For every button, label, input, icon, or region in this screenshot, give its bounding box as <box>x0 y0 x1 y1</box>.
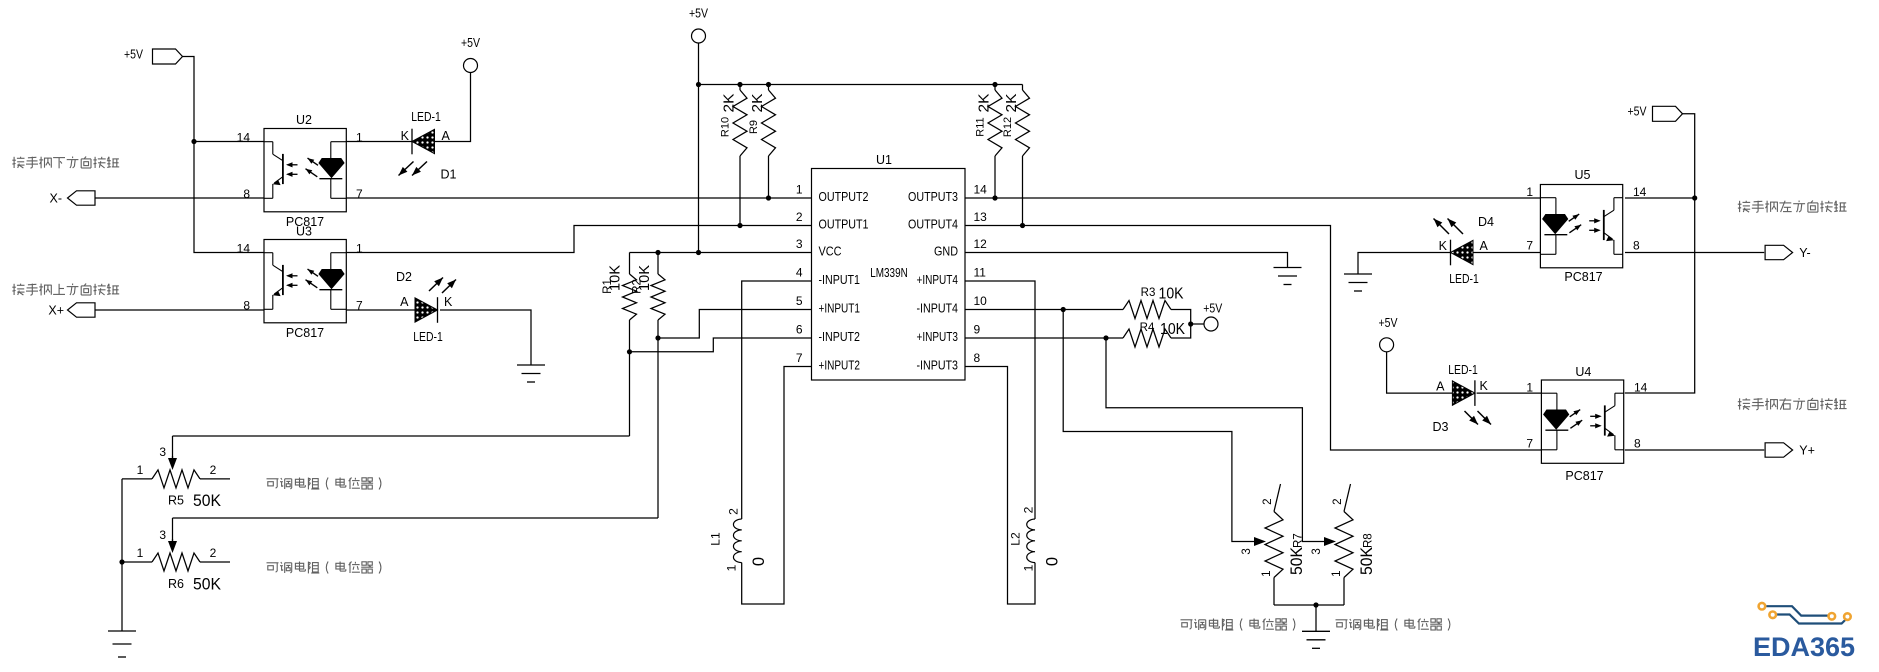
wire to ground (R7/R8) <box>1315 605 1317 631</box>
svg-text:K: K <box>1480 379 1489 393</box>
svg-text:2: 2 <box>796 210 803 224</box>
svg-text:3: 3 <box>1241 548 1253 554</box>
svg-text:8: 8 <box>1634 437 1641 451</box>
D1 light arrows <box>399 162 414 176</box>
junction +INPUT3 branch <box>1103 335 1108 340</box>
svg-text:-INPUT1: -INPUT1 <box>819 272 861 287</box>
svg-text:R11: R11 <box>974 117 986 136</box>
svg-text:+5V: +5V <box>1628 105 1648 119</box>
svg-text:R12: R12 <box>1002 117 1014 137</box>
junction R11/OUTPUT3 <box>992 195 997 200</box>
port Y- <box>1765 245 1793 259</box>
wire U1 pin 2 OUTPUT1 to U3 pin 1 <box>346 226 811 253</box>
wire X- to U2 pin 8 <box>95 197 264 199</box>
LED D1 <box>412 129 435 153</box>
svg-text:1: 1 <box>137 546 144 560</box>
svg-text:2: 2 <box>210 546 217 560</box>
svg-text:A: A <box>1480 239 1489 253</box>
resistor R11 2K <box>994 85 996 91</box>
label 可调电阻（电位器） R7 <box>1181 619 1295 631</box>
svg-text:A: A <box>400 295 409 309</box>
svg-text:1: 1 <box>137 463 144 477</box>
LED D4 <box>1451 240 1474 264</box>
wire U3 pin 7 to LED D2 <box>346 309 415 311</box>
ground (R7/R8) <box>1302 630 1330 632</box>
svg-text:R10: R10 <box>719 117 731 137</box>
junction VCC/R2 <box>655 250 660 255</box>
LED D3 <box>1452 381 1475 405</box>
inductor L1 <box>733 519 741 563</box>
junction rail R10 <box>737 82 742 87</box>
ground (R5/R6) <box>108 630 136 632</box>
wire +5V to LED D3 <box>1387 352 1453 393</box>
junction VCC/+5V <box>696 250 701 255</box>
power +5V circle (R3/R4) <box>1204 317 1218 331</box>
D2 light arrows <box>429 278 443 292</box>
svg-text:1: 1 <box>1022 564 1036 571</box>
svg-text:+5V: +5V <box>124 48 144 62</box>
junction R12/OUTPUT4 <box>1020 223 1025 228</box>
svg-text:GND: GND <box>934 244 958 259</box>
svg-text:2K: 2K <box>1003 94 1020 113</box>
potentiometer R6 50K <box>122 561 152 563</box>
wire U5 pin 14 <box>1625 197 1695 199</box>
junction rail R9 <box>766 82 771 87</box>
svg-text:0: 0 <box>1044 557 1062 566</box>
wire U1 pin 10 -INPUT4 to R3 <box>965 309 1123 311</box>
wire U2 pin 1 to LED D1 <box>346 141 413 143</box>
svg-text:PC817: PC817 <box>286 326 324 340</box>
svg-text:2: 2 <box>1022 506 1036 513</box>
wire D4 cathode to ground <box>1358 253 1451 275</box>
ground (U1 GND) <box>1274 267 1302 269</box>
svg-text:+INPUT4: +INPUT4 <box>917 272 959 287</box>
svg-text:OUTPUT3: OUTPUT3 <box>908 189 958 204</box>
junction -INPUT4 branch <box>1061 307 1066 312</box>
port X- <box>68 191 96 205</box>
svg-text:1: 1 <box>1331 570 1343 576</box>
svg-text:LED-1: LED-1 <box>1449 272 1479 286</box>
svg-text:6: 6 <box>796 323 803 337</box>
svg-text:7: 7 <box>356 187 363 201</box>
svg-text:U2: U2 <box>296 113 312 127</box>
svg-text:1: 1 <box>796 183 803 197</box>
ground (D2) <box>517 364 545 366</box>
potentiometer R8 50K <box>1344 484 1351 512</box>
svg-text:5: 5 <box>796 294 803 308</box>
svg-text:OUTPUT1: OUTPUT1 <box>819 217 869 232</box>
wire U2 pin 7 to U1 pin 1 (OUTPUT2) <box>346 197 811 199</box>
svg-text:R4: R4 <box>1140 322 1155 334</box>
svg-text:D1: D1 <box>441 168 457 182</box>
EDA365 logo <box>1753 603 1855 662</box>
svg-text:1: 1 <box>725 564 739 571</box>
wire R1 to R5 wiper <box>173 435 630 437</box>
resistor R12 2K <box>1022 85 1024 91</box>
svg-text:2: 2 <box>727 508 741 515</box>
wire D2 cathode to ground <box>440 310 531 365</box>
LED D2 <box>415 298 438 322</box>
resistor R9 2K <box>768 85 770 91</box>
power +5V circle (D3) <box>1380 338 1394 352</box>
port Y+ <box>1765 443 1793 457</box>
svg-text:3: 3 <box>159 445 166 459</box>
svg-text:2: 2 <box>1332 498 1344 504</box>
power flag +5V left <box>153 49 183 64</box>
wire GND pin 12 to ground <box>965 253 1288 268</box>
D4 light arrows <box>1434 219 1450 235</box>
svg-text:R1: R1 <box>602 279 614 294</box>
svg-text:D3: D3 <box>1433 420 1449 434</box>
junction R5/R6 pin1 <box>119 559 124 564</box>
svg-text:R6: R6 <box>168 577 184 591</box>
wire D3 cathode to U4 pin 1 <box>1477 392 1542 394</box>
svg-text:K: K <box>401 129 410 143</box>
svg-text:7: 7 <box>1526 437 1533 451</box>
junction R3/R4/+5V <box>1188 321 1193 326</box>
svg-text:OUTPUT2: OUTPUT2 <box>819 189 869 204</box>
wire +5V to VCC rail <box>698 43 700 253</box>
label 可调电阻（电位器） R5 <box>267 478 381 490</box>
svg-text:8: 8 <box>243 299 250 313</box>
wire U1 pin 11 +INPUT4 to L2 <box>965 281 1035 519</box>
svg-text:12: 12 <box>974 237 988 251</box>
junction +5V/U2.14 <box>191 139 196 144</box>
wire U1 pin 4 -INPUT1 to L1 <box>742 281 812 519</box>
svg-text:10K: 10K <box>1160 321 1185 338</box>
wire U5 pin 7 to LED D4 <box>1473 252 1540 254</box>
svg-text:3: 3 <box>1311 548 1323 554</box>
wire U1 pin 13 OUTPUT4 to U4 pin 7 <box>965 226 1541 451</box>
svg-text:9: 9 <box>974 323 981 337</box>
port X+ <box>68 303 96 317</box>
svg-text:+5V: +5V <box>1379 316 1399 330</box>
resistor R1 10K <box>629 253 631 275</box>
svg-text:-INPUT3: -INPUT3 <box>917 358 959 373</box>
label 接手柄上方向按钮 <box>12 284 119 296</box>
wire U2 pin 14 <box>194 141 264 143</box>
junction R9/OUTPUT2 <box>766 195 771 200</box>
svg-text:4: 4 <box>796 266 803 280</box>
wire U1 pin 9 +INPUT3 to R4 <box>965 337 1123 339</box>
svg-text:0: 0 <box>750 557 768 566</box>
svg-text:14: 14 <box>1634 381 1648 395</box>
power flag +5V right <box>1653 106 1683 121</box>
wire R7/R8 bottoms <box>1274 604 1344 606</box>
svg-text:+5V: +5V <box>689 7 709 21</box>
svg-text:1: 1 <box>356 131 363 145</box>
svg-text:PC817: PC817 <box>1565 469 1603 483</box>
junction +5V/U5.14 <box>1692 195 1697 200</box>
svg-text:8: 8 <box>243 187 250 201</box>
svg-text:U4: U4 <box>1575 365 1591 379</box>
wire R2 to R6 wiper <box>173 517 659 519</box>
svg-text:LED-1: LED-1 <box>413 330 443 344</box>
svg-text:14: 14 <box>1633 185 1647 199</box>
svg-text:14: 14 <box>974 183 988 197</box>
svg-text:1: 1 <box>1261 570 1273 576</box>
wire +5V flag to U2/U3 pin 14 <box>183 57 265 253</box>
svg-text:14: 14 <box>237 242 251 256</box>
svg-text:10K: 10K <box>1159 286 1184 303</box>
svg-text:U5: U5 <box>1575 168 1591 182</box>
potentiometer R5 50K <box>122 478 152 480</box>
resistor R3 10K <box>1123 301 1171 319</box>
optocoupler U4 <box>1541 380 1623 463</box>
ground (D4) <box>1344 273 1372 275</box>
svg-text:50K: 50K <box>1358 547 1376 575</box>
svg-text:50K: 50K <box>193 492 221 510</box>
svg-text:R9: R9 <box>748 120 760 134</box>
svg-text:7: 7 <box>1526 239 1533 253</box>
svg-text:R7: R7 <box>1293 533 1305 548</box>
power +5V circle top <box>692 29 706 43</box>
junction R7/R8 ground <box>1313 602 1318 607</box>
svg-text:D2: D2 <box>396 270 412 284</box>
svg-text:1: 1 <box>1526 185 1533 199</box>
svg-text:X+: X+ <box>48 304 64 318</box>
svg-text:L2: L2 <box>1009 532 1023 546</box>
svg-text:OUTPUT4: OUTPUT4 <box>908 217 958 232</box>
svg-text:2: 2 <box>1262 498 1274 504</box>
junction +5V rail <box>696 82 701 87</box>
svg-text:U3: U3 <box>296 225 312 239</box>
wire -INPUT4 branch to R7 wiper <box>1063 310 1256 542</box>
svg-text:8: 8 <box>1633 239 1640 253</box>
svg-text:R2: R2 <box>632 279 644 294</box>
svg-text:K: K <box>444 295 453 309</box>
svg-text:50K: 50K <box>1288 547 1306 575</box>
inductor L2 <box>1027 519 1035 563</box>
svg-text:7: 7 <box>796 351 803 365</box>
svg-text:R3: R3 <box>1141 287 1156 299</box>
svg-text:L1: L1 <box>709 532 723 546</box>
svg-text:13: 13 <box>974 210 988 224</box>
svg-text:X-: X- <box>50 192 63 206</box>
svg-text:LM339N: LM339N <box>870 265 908 280</box>
wire U1 pin 6 -INPUT2 to R1 <box>630 338 812 352</box>
svg-text:LED-1: LED-1 <box>411 110 441 124</box>
wire +INPUT3 branch to R8 wiper <box>1106 338 1326 542</box>
svg-text:LED-1: LED-1 <box>1448 363 1478 377</box>
resistor R10 2K <box>739 85 741 91</box>
svg-text:+INPUT3: +INPUT3 <box>917 329 959 344</box>
svg-text:1: 1 <box>1526 381 1533 395</box>
junction R2/+INPUT1 <box>655 335 660 340</box>
label 接手柄右方向按钮 <box>1738 398 1847 410</box>
svg-text:A: A <box>1436 380 1445 394</box>
label 接手柄下方向按钮 <box>12 157 119 169</box>
wire U5 pin 8 to Y- <box>1625 252 1764 254</box>
junction rail R11 <box>992 82 997 87</box>
svg-text:PC817: PC817 <box>1564 270 1602 284</box>
wire VCC segment <box>630 252 812 254</box>
svg-text:Y-: Y- <box>1799 246 1810 260</box>
svg-text:-INPUT2: -INPUT2 <box>819 329 861 344</box>
comparator U1 LM339N <box>812 169 966 381</box>
svg-text:R8: R8 <box>1363 533 1375 548</box>
wire R5/R6 pin1 to ground <box>121 479 123 631</box>
svg-text:1: 1 <box>356 242 363 256</box>
label 可调电阻（电位器） R6 <box>267 562 381 574</box>
optocoupler U5 <box>1540 185 1622 268</box>
svg-text:D4: D4 <box>1478 215 1494 229</box>
svg-text:2K: 2K <box>976 94 993 113</box>
svg-text:3: 3 <box>159 528 166 542</box>
wire R3 to +5V <box>1171 310 1204 325</box>
svg-text:VCC: VCC <box>819 244 842 259</box>
svg-text:R5: R5 <box>168 494 184 508</box>
svg-text:10: 10 <box>974 294 988 308</box>
resistor R2 10K <box>657 253 659 275</box>
wire R4 to +5V <box>1171 324 1191 338</box>
svg-text:+5V: +5V <box>461 36 481 50</box>
resistor R4 10K <box>1123 329 1171 347</box>
svg-text:+INPUT1: +INPUT1 <box>819 301 861 316</box>
wire D1 anode to +5V <box>435 73 471 142</box>
D3 light arrows <box>1465 411 1479 425</box>
optocoupler U2 <box>264 129 346 212</box>
svg-text:K: K <box>1439 239 1448 253</box>
wire L2 to U1 pin 8 -INPUT3 <box>965 367 1035 605</box>
wire U4 pin 8 to Y+ <box>1625 449 1764 451</box>
wire X+ to U3 pin 8 <box>95 309 264 311</box>
wire U1 pin 5 +INPUT1 to R2 <box>658 310 812 339</box>
junction R10/OUTPUT1 <box>737 223 742 228</box>
svg-text:+INPUT2: +INPUT2 <box>819 358 861 373</box>
wire top rail <box>699 84 1023 86</box>
svg-text:Y+: Y+ <box>1799 444 1815 458</box>
junction R1/-INPUT2 <box>627 349 632 354</box>
optocoupler U3 <box>264 240 346 323</box>
svg-text:-INPUT4: -INPUT4 <box>917 301 959 316</box>
svg-text:+5V: +5V <box>1203 302 1223 316</box>
svg-text:2: 2 <box>210 463 217 477</box>
svg-text:50K: 50K <box>193 576 221 594</box>
svg-text:2K: 2K <box>749 94 766 113</box>
svg-text:8: 8 <box>974 351 981 365</box>
svg-text:2K: 2K <box>721 94 738 113</box>
label 接手柄左方向按钮 <box>1738 201 1847 213</box>
power +5V circle (D1) <box>464 59 478 73</box>
wire U1 pin 14 OUTPUT3 to U5 pin 1 <box>965 197 1540 199</box>
svg-text:U1: U1 <box>876 153 892 167</box>
svg-text:3: 3 <box>796 237 803 251</box>
wire +5V flag to U5.14/U4.14 <box>1625 114 1695 393</box>
svg-text:14: 14 <box>237 131 251 145</box>
svg-text:11: 11 <box>974 266 987 280</box>
svg-text:EDA365: EDA365 <box>1753 632 1855 662</box>
wire L1 to U1 pin 7 +INPUT2 <box>742 367 812 605</box>
potentiometer R7 50K <box>1274 484 1281 512</box>
label 可调电阻（电位器） R8 <box>1336 619 1450 631</box>
